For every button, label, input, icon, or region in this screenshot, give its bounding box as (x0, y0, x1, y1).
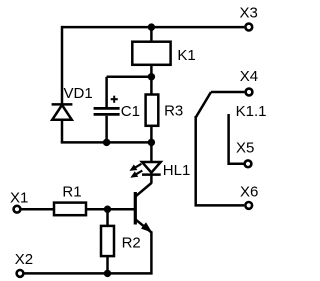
terminal X2 (17, 270, 24, 277)
junction base node (104, 206, 111, 213)
svg-text:X3: X3 (240, 4, 258, 21)
resistor R3 (146, 95, 159, 126)
junction K1 bottom node (148, 73, 155, 80)
resistor R2 (101, 209, 114, 273)
svg-text:C1: C1 (121, 103, 140, 120)
wire X4 (211, 91, 244, 94)
wire left vertical lower (61, 120, 64, 143)
wire base (108, 208, 135, 211)
junction R3 bottom node (148, 139, 155, 146)
junction R2 bottom (104, 270, 111, 277)
transistor VT1 (135, 183, 152, 275)
capacitor C1 (94, 108, 120, 142)
emitter wire down (150, 231, 153, 274)
svg-text:X1: X1 (10, 189, 28, 206)
wire R3 bottom to LED (150, 127, 153, 162)
junction C1 bottom (103, 139, 110, 146)
svg-text:K1.1: K1.1 (236, 103, 267, 120)
svg-text:VD1: VD1 (64, 85, 93, 102)
LED light arrow 2 (130, 171, 142, 178)
wire bottom horizontal (24, 272, 151, 275)
svg-text:HL1: HL1 (163, 162, 191, 179)
svg-text:X6: X6 (240, 184, 258, 201)
LED HL1 (142, 162, 161, 184)
wire bottom-middle horizontal (61, 141, 152, 144)
emitter arrow (141, 222, 152, 232)
LED light arrow 1 (129, 164, 141, 171)
contact blade K1.1 (196, 92, 211, 117)
svg-text:R2: R2 (122, 234, 141, 251)
svg-text:K1: K1 (177, 47, 195, 64)
terminal X5 (245, 160, 252, 167)
svg-text:X2: X2 (15, 251, 33, 268)
svg-text:R3: R3 (164, 103, 183, 120)
emitter (136, 220, 152, 233)
terminal X6 (245, 202, 252, 209)
svg-text:R1: R1 (62, 184, 81, 201)
resistor R1 (21, 203, 108, 216)
collector (136, 183, 152, 196)
wire contact common vertical (196, 116, 244, 205)
terminal X1 (14, 206, 21, 213)
terminal X3 (245, 24, 252, 31)
wire horizontal C1 to K1/R3 node (107, 76, 152, 79)
wire C1 top lead (105, 77, 108, 107)
polarity plus of C1 (111, 96, 118, 103)
wire X5 branch (229, 114, 244, 164)
diode VD1 (52, 104, 73, 119)
terminal X4 (246, 89, 253, 96)
svg-text:X4: X4 (240, 68, 258, 85)
svg-text:X5: X5 (236, 139, 254, 156)
relay coil K1 (132, 27, 170, 93)
junction top wire K1 (148, 23, 155, 30)
wire top horizontal (62, 26, 244, 29)
wire left vertical upper (61, 26, 64, 104)
base bar (134, 192, 137, 225)
